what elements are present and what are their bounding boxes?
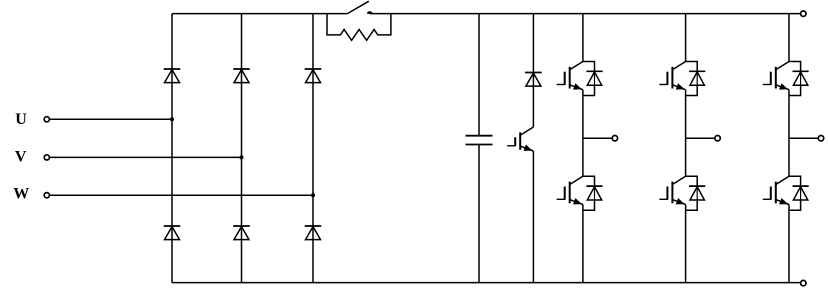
terminal W: [44, 193, 49, 198]
diode D4 (rectifier bottom): [164, 226, 181, 240]
diode D5 (rectifier bottom): [233, 226, 250, 240]
terminal V: [44, 155, 49, 160]
transistor Q1 (IGBT): [557, 62, 583, 90]
wire inverter leg 1 (to bottom bus): [582, 205, 584, 283]
diode D12 (freewheel): [689, 71, 705, 85]
wire inverter leg 3 (to bottom bus): [788, 205, 790, 283]
transistor Q4 (IGBT): [557, 176, 583, 204]
node V junction: [240, 155, 244, 159]
terminal output W2: [818, 136, 823, 141]
svg-text:V: V: [15, 149, 27, 166]
terminal output V2: [715, 136, 720, 141]
wire inverter leg 3 (bus to top module): [788, 14, 790, 62]
wire inverter leg 2 (bus to top module): [685, 14, 687, 62]
terminal DC+ (top right): [801, 11, 806, 16]
transistor Q6 (IGBT): [763, 176, 789, 204]
diode D13 (freewheel): [793, 71, 809, 85]
wire Q6 collector branch: [789, 176, 801, 186]
wire Q4 emitter branch: [583, 200, 595, 210]
svg-text:U: U: [15, 111, 27, 128]
wire Q2 emitter branch: [686, 85, 698, 95]
wire Q4 collector branch: [583, 176, 595, 186]
wire V input: [50, 156, 242, 158]
wire brake leg (bottom): [532, 151, 534, 283]
wire Q5 collector branch: [686, 176, 698, 186]
label V: [15, 149, 27, 166]
wire Q3 collector branch: [789, 62, 801, 72]
terminal DC- (bottom right): [801, 280, 806, 285]
node W junction: [311, 193, 315, 197]
wire inverter leg 3 (mid): [788, 90, 790, 177]
wire inverter leg 1 (bus to top module): [582, 14, 584, 62]
node leg 3 output junction: [789, 137, 818, 139]
terminal output U2: [612, 136, 617, 141]
resistor R1 (precharge): [327, 14, 391, 41]
wire D16 cathode-anode through: [800, 186, 802, 200]
wire rectifier leg 1: [171, 14, 173, 283]
wire Q1 collector branch: [583, 62, 595, 72]
wire top DC+ bus (right section): [370, 13, 801, 15]
node U junction: [170, 117, 174, 121]
wire inverter leg 2 (mid): [685, 90, 687, 177]
label W: [13, 186, 29, 203]
diode D2 (rectifier top): [233, 69, 250, 83]
wire brake leg (top): [532, 14, 534, 127]
wire top DC+ bus (left section): [172, 13, 347, 15]
diode D16 (freewheel): [793, 186, 809, 200]
capacitor C1: [466, 136, 493, 145]
diode D15 (freewheel): [689, 186, 705, 200]
wire D14 cathode-anode through: [594, 186, 596, 200]
transistor Q2 (IGBT): [659, 62, 685, 90]
diode D6 (rectifier bottom): [305, 226, 322, 240]
transistor Q7 (brake IGBT): [507, 127, 533, 151]
node leg 1 output junction: [583, 137, 612, 139]
wire D13 cathode-anode through: [800, 71, 802, 85]
wire D11 cathode-anode through: [594, 71, 596, 85]
wire W input: [50, 194, 313, 196]
wire U input: [50, 118, 172, 120]
wire rectifier leg 2: [241, 14, 243, 283]
node leg 2 output junction: [686, 137, 715, 139]
wire rectifier leg 3: [312, 14, 314, 283]
wire inverter leg 2 (to bottom bus): [685, 205, 687, 283]
transistor Q3 (IGBT): [763, 62, 789, 90]
wire bottom DC- bus: [172, 282, 801, 284]
transistor Q5 (IGBT): [659, 176, 685, 204]
diode D14 (freewheel): [586, 186, 602, 200]
wire Q2 collector branch: [686, 62, 698, 72]
diode D1 (rectifier top): [164, 69, 181, 83]
wire capacitor leg (bottom): [478, 145, 480, 283]
wire D15 cathode-anode through: [696, 186, 698, 200]
wire Q1 emitter branch: [583, 85, 595, 95]
svg-text:W: W: [13, 186, 29, 203]
switch S1 contact: [367, 11, 373, 14]
wire Q6 emitter branch: [789, 200, 801, 210]
wire capacitor leg (top): [478, 14, 480, 136]
diode D3 (rectifier top): [305, 69, 322, 83]
label U: [15, 111, 27, 128]
diode D7 (brake): [525, 73, 542, 87]
wire Q5 emitter branch: [686, 200, 698, 210]
wire D12 cathode-anode through: [696, 71, 698, 85]
terminal U: [44, 117, 49, 122]
switch S1 blade (precharge bypass contactor): [347, 1, 368, 13]
diode D11 (freewheel): [586, 71, 602, 85]
wire Q3 emitter branch: [789, 85, 801, 95]
wire inverter leg 1 (mid): [582, 90, 584, 177]
